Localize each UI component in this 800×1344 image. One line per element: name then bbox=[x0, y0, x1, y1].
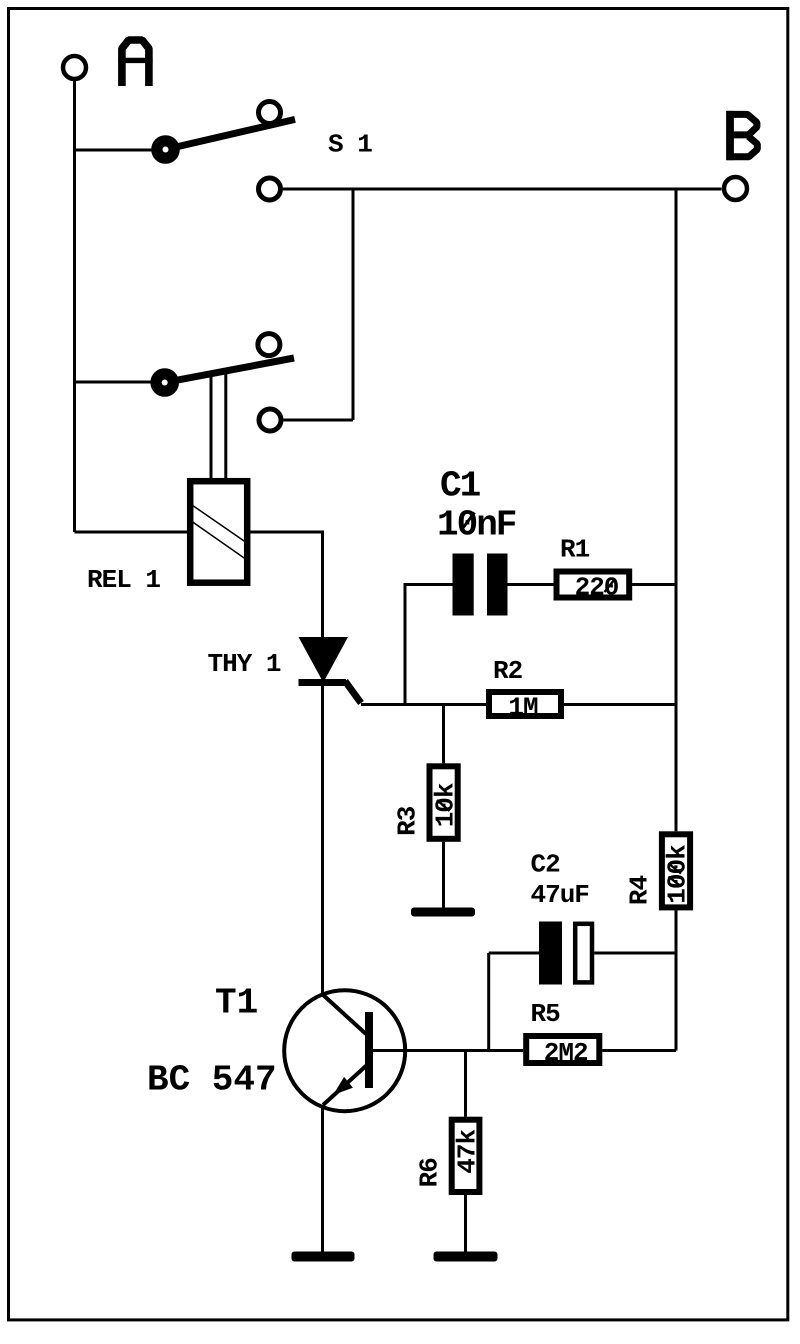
svg-text:47k: 47k bbox=[453, 1130, 483, 1174]
svg-text:R4: R4 bbox=[625, 876, 655, 906]
wire base node to R5 bbox=[373, 1049, 523, 1052]
svg-text:R1: R1 bbox=[560, 535, 590, 565]
svg-text:1M: 1M bbox=[508, 693, 538, 723]
capacitor C1 bbox=[453, 554, 508, 616]
resistor R4 bbox=[662, 834, 690, 907]
wire relay to thyristor anode bbox=[251, 532, 323, 637]
wire A to S1 pole 2 bbox=[75, 381, 165, 384]
wire C2 to bus bbox=[594, 952, 676, 955]
wire emitter to ground bbox=[321, 1107, 324, 1252]
resistor R6 bbox=[452, 1120, 480, 1192]
switch S1 pole 1 upper contact bbox=[259, 102, 281, 124]
wire R5 to bus bbox=[602, 1049, 676, 1052]
slashed zero marks bbox=[461, 513, 475, 531]
svg-text:10k: 10k bbox=[430, 783, 460, 827]
wire R1 to bus bbox=[632, 583, 676, 586]
resistor R3 bbox=[430, 766, 458, 839]
transistor T1 bbox=[284, 990, 405, 1111]
wire C2 node drop bbox=[487, 953, 490, 1051]
resistor R1 bbox=[557, 572, 630, 598]
switch S1 pole 1 pivot bbox=[151, 135, 180, 164]
svg-text:C2: C2 bbox=[531, 850, 561, 880]
wire A bus to relay bbox=[75, 531, 188, 534]
svg-text:S 1: S 1 bbox=[328, 130, 372, 160]
resistor R2 bbox=[489, 692, 561, 716]
wire gate to R2 node bbox=[361, 703, 486, 706]
capacitor C2 positive plate bbox=[539, 922, 562, 985]
wire base node to R6 bbox=[464, 1051, 467, 1117]
wire R2 to bus bbox=[564, 703, 676, 706]
wire C1 to R1 bbox=[508, 583, 554, 586]
svg-text:10nF: 10nF bbox=[437, 505, 516, 546]
terminal B bbox=[724, 177, 747, 200]
terminal A bbox=[63, 56, 86, 79]
ground T1 emitter bbox=[292, 1252, 355, 1262]
wire thyristor cathode down to T1 collector bbox=[321, 686, 324, 995]
right bus upper bbox=[675, 189, 678, 831]
capacitor C2 negative plate bbox=[575, 924, 592, 983]
ground R6 bbox=[434, 1252, 498, 1262]
wire junction drop to pole 2 bbox=[352, 189, 355, 420]
svg-text:2M2: 2M2 bbox=[544, 1038, 588, 1068]
ground R3 bbox=[411, 908, 475, 917]
wire R3 to ground bbox=[442, 842, 445, 908]
wire pole 2 contact to junction bbox=[284, 419, 354, 422]
wire contact to terminal B bbox=[283, 188, 722, 191]
node B label bbox=[727, 111, 758, 160]
switch S1 pole 2 arm bbox=[178, 358, 294, 380]
svg-text:220: 220 bbox=[575, 573, 619, 603]
relay REL 1 coil bbox=[190, 481, 247, 583]
svg-text:R3: R3 bbox=[393, 806, 423, 836]
svg-text:REL 1: REL 1 bbox=[87, 565, 160, 595]
svg-text:R6: R6 bbox=[415, 1158, 445, 1188]
switch S1 pole 2 pivot bbox=[150, 368, 179, 397]
wire C1 left leg bbox=[405, 585, 453, 705]
wire A to S1 pole 1 bbox=[75, 149, 166, 152]
thyristor THY 1 bbox=[299, 637, 362, 703]
switch S1 pole 1 lower contact bbox=[259, 178, 281, 200]
svg-text:100k: 100k bbox=[663, 845, 693, 904]
node A label bbox=[118, 40, 152, 86]
resistor R5 bbox=[526, 1036, 599, 1063]
svg-text:T1: T1 bbox=[215, 983, 258, 1024]
svg-text:THY 1: THY 1 bbox=[208, 649, 281, 679]
relay actuator link bbox=[211, 371, 226, 478]
wire C2 left bbox=[489, 952, 539, 955]
svg-text:R5: R5 bbox=[531, 999, 561, 1029]
wire A vertical bbox=[73, 81, 76, 532]
svg-text:R2: R2 bbox=[493, 656, 523, 686]
wire R2 node to R3 bbox=[442, 705, 445, 764]
right bus lower bbox=[675, 910, 678, 1050]
switch S1 pole 1 arm bbox=[179, 119, 295, 146]
switch S1 pole 2 lower contact bbox=[259, 409, 281, 431]
svg-text:47uF: 47uF bbox=[531, 880, 590, 910]
wire R6 to ground bbox=[464, 1192, 467, 1252]
svg-text:C1: C1 bbox=[440, 466, 481, 507]
switch S1 pole 2 upper contact bbox=[258, 334, 280, 356]
svg-text:BC 547: BC 547 bbox=[147, 1060, 277, 1101]
